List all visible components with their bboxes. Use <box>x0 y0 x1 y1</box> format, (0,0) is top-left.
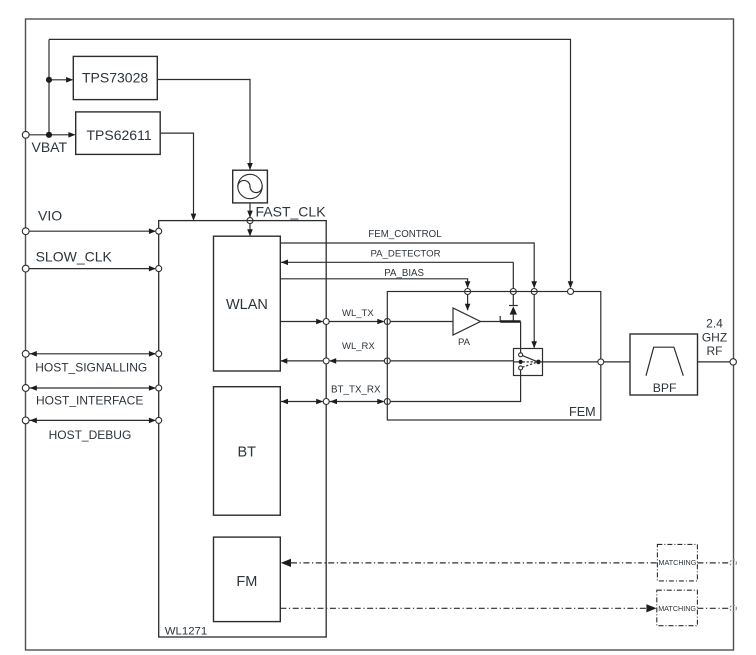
wire to BPF <box>604 361 630 363</box>
wire oscillator to FAST_CLK node <box>249 203 251 217</box>
svg-text:WLAN: WLAN <box>226 297 268 313</box>
net FEM_CONTROL <box>280 229 537 348</box>
junction dot VBAT <box>46 132 52 138</box>
node FM RX port (dashed) <box>730 560 736 566</box>
matching network 2 <box>657 590 698 626</box>
arrowhead into oscillator <box>247 163 253 170</box>
svg-text:WL1271: WL1271 <box>165 625 207 637</box>
diode detector <box>509 306 518 322</box>
svg-text:BT_TX_RX: BT_TX_RX <box>331 385 381 396</box>
svg-text:MATCHING: MATCHING <box>658 604 696 613</box>
svg-text:BT: BT <box>238 444 257 460</box>
net FM RX antenna <box>281 559 730 567</box>
node RF output port <box>730 359 736 365</box>
port HOST_DEBUG <box>22 417 161 442</box>
regulator TPS62611 <box>76 112 161 154</box>
node VBAT port circle <box>22 131 29 138</box>
port SLOW_CLK <box>22 249 161 272</box>
wire BPF to RF port <box>698 361 731 363</box>
node FAST_CLK <box>247 218 253 224</box>
svg-text:PA_BIAS: PA_BIAS <box>384 268 424 279</box>
svg-text:HOST_SIGNALLING: HOST_SIGNALLING <box>35 361 147 375</box>
svg-text:SLOW_CLK: SLOW_CLK <box>36 249 113 265</box>
svg-text:BPF: BPF <box>653 381 677 395</box>
label 2.4 GHZ RF <box>702 317 727 358</box>
arrowhead into FEM top node <box>568 281 574 288</box>
svg-text:PA: PA <box>458 337 471 348</box>
port VIO <box>22 207 161 234</box>
oscillator (clock source) <box>233 170 268 203</box>
svg-text:GHZ: GHZ <box>702 330 727 344</box>
block FM <box>214 537 281 622</box>
node FEM RF output <box>598 359 604 365</box>
svg-text:2.4: 2.4 <box>706 317 723 331</box>
wire to TPS73028 <box>49 79 72 81</box>
node FM TX port (dashed) <box>730 605 736 611</box>
svg-text:TPS73028: TPS73028 <box>82 70 148 86</box>
svg-text:HOST_INTERFACE: HOST_INTERFACE <box>36 394 143 408</box>
block BT <box>214 387 281 516</box>
node FEM power entry <box>568 289 574 295</box>
filter BPF <box>630 334 698 395</box>
svg-text:TPS62611: TPS62611 <box>87 127 152 143</box>
svg-text:VBAT: VBAT <box>32 139 68 155</box>
net WL_RX <box>280 341 513 364</box>
svg-text:MATCHING: MATCHING <box>659 558 697 567</box>
chip WL1271 <box>159 221 327 638</box>
net PA_BIAS <box>280 268 470 311</box>
svg-text:PA_DETECTOR: PA_DETECTOR <box>371 248 441 259</box>
wire VBAT horizontal <box>29 134 74 136</box>
arrowhead into TPS73028 <box>66 77 73 83</box>
switch SP3T <box>514 349 543 376</box>
net WL_TX <box>280 308 453 325</box>
svg-text:FAST_CLK: FAST_CLK <box>256 203 327 219</box>
matching network 1 <box>657 544 697 581</box>
arrowhead at FAST_CLK node <box>247 211 253 218</box>
wire switch to BPF <box>541 361 598 363</box>
net PA_DETECTOR <box>280 248 516 305</box>
port HOST_INTERFACE <box>22 385 161 408</box>
wire FAST_CLK into WLAN <box>249 224 251 236</box>
port HOST_SIGNALLING <box>22 350 161 374</box>
svg-text:VIO: VIO <box>38 207 62 223</box>
svg-text:WL_TX: WL_TX <box>342 308 374 319</box>
block FEM <box>387 292 601 421</box>
svg-text:WL_RX: WL_RX <box>342 341 375 352</box>
wire top power rail to FEM <box>49 39 571 287</box>
svg-text:FEM_CONTROL: FEM_CONTROL <box>368 229 442 240</box>
block WLAN <box>214 236 281 371</box>
wire PA output to switch <box>481 316 521 348</box>
junction dot upper <box>46 77 52 83</box>
wire VBAT vertical riser <box>48 39 50 134</box>
net BT_TX_RX <box>280 376 520 405</box>
svg-text:FEM: FEM <box>569 405 596 419</box>
wire TPS73028 output to oscillator <box>157 80 250 170</box>
svg-text:FM: FM <box>236 574 257 590</box>
arrowhead into TPS62611 <box>68 132 75 138</box>
svg-text:RF: RF <box>707 344 723 358</box>
svg-text:HOST_DEBUG: HOST_DEBUG <box>49 428 132 442</box>
net FM TX antenna <box>280 604 730 612</box>
arrowhead at WL1271 top <box>191 214 197 221</box>
arrowhead into WLAN top <box>247 229 253 236</box>
op-amp PA <box>453 308 481 348</box>
regulator TPS73028 <box>73 56 157 99</box>
wire TPS62611 output to WL1271 <box>160 133 193 220</box>
